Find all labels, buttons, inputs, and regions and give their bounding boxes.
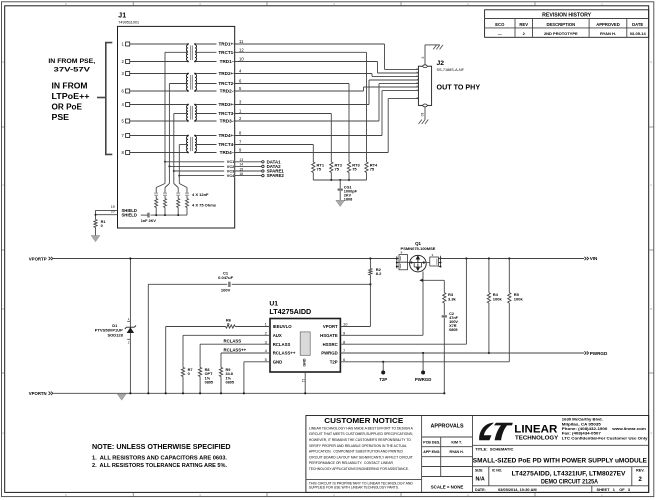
svg-text:APP ENG.: APP ENG. xyxy=(423,450,440,454)
svg-text:RCLASS++: RCLASS++ xyxy=(224,347,247,352)
svg-text:PCB DES.: PCB DES. xyxy=(423,440,440,444)
svg-text:VC1: VC1 xyxy=(227,160,234,164)
svg-text:B: B xyxy=(2,307,4,311)
svg-text:3.3k: 3.3k xyxy=(448,297,457,302)
svg-text:IC NO.: IC NO. xyxy=(492,468,502,472)
svg-text:1nF 2KV: 1nF 2KV xyxy=(141,219,157,223)
svg-text:RCLASS: RCLASS xyxy=(273,342,291,347)
svg-text:10: 10 xyxy=(239,57,244,62)
svg-text:LINEAR: LINEAR xyxy=(514,424,557,436)
svg-text:RCLASS++: RCLASS++ xyxy=(273,351,296,356)
svg-text:10: 10 xyxy=(343,322,348,327)
svg-text:LT4275AIDD, LT4321IUF, LTM8027: LT4275AIDD, LT4321IUF, LTM8027EV xyxy=(512,470,627,477)
svg-text:IEEUVLO: IEEUVLO xyxy=(273,324,293,329)
svg-text:SPARE2: SPARE2 xyxy=(267,173,285,178)
svg-text:GND: GND xyxy=(273,359,283,364)
svg-text:PWRGD: PWRGD xyxy=(590,351,608,356)
svg-text:13: 13 xyxy=(239,158,243,162)
svg-text:100V: 100V xyxy=(221,288,231,293)
svg-text:TRCT1: TRCT1 xyxy=(218,50,233,55)
svg-text:14: 14 xyxy=(239,163,243,167)
svg-text:T2P: T2P xyxy=(330,359,338,364)
svg-text:TRCT3: TRCT3 xyxy=(218,111,233,116)
svg-text:PERFORMANCE OR RELIABILITY. C: PERFORMANCE OR RELIABILITY. CONTACT LINE… xyxy=(309,461,393,465)
svg-text:03/05/2014, 10:30 AM: 03/05/2014, 10:30 AM xyxy=(498,487,537,492)
svg-text:VPORTN: VPORTN xyxy=(29,391,47,397)
svg-text:03-05-14: 03-05-14 xyxy=(630,31,647,36)
svg-text:2ND PROTOTYPE: 2ND PROTOTYPE xyxy=(544,31,578,36)
svg-text:37V-57V: 37V-57V xyxy=(54,67,92,74)
svg-text:B: B xyxy=(650,307,652,311)
svg-text:DATE: DATE xyxy=(632,22,643,27)
svg-text:DATE:: DATE: xyxy=(475,488,486,492)
svg-text:TRCT4: TRCT4 xyxy=(218,142,233,147)
svg-text:SUPPLIED FOR USE WITH LINEAR T: SUPPLIED FOR USE WITH LINEAR TECHNOLOGY … xyxy=(309,486,399,490)
svg-text:TRD4-: TRD4- xyxy=(220,150,234,155)
svg-text:15: 15 xyxy=(239,167,243,171)
svg-text:RCLASS: RCLASS xyxy=(224,339,242,344)
svg-text:PSMN075-100MSE: PSMN075-100MSE xyxy=(401,246,436,251)
svg-text:100k: 100k xyxy=(514,297,524,302)
svg-text:TRD3+: TRD3+ xyxy=(219,102,234,107)
svg-text:TECHNOLOGY: TECHNOLOGY xyxy=(515,436,558,442)
svg-text:OUT TO PHY: OUT TO PHY xyxy=(437,83,481,92)
svg-text:0805: 0805 xyxy=(226,381,234,385)
svg-text:T2P: T2P xyxy=(379,377,387,382)
svg-text:0.047uF: 0.047uF xyxy=(218,275,233,280)
svg-text:TRD1-: TRD1- xyxy=(220,59,234,64)
svg-text:IN FROM: IN FROM xyxy=(52,81,88,90)
svg-text:J2: J2 xyxy=(437,60,445,67)
svg-text:8.2: 8.2 xyxy=(376,271,382,276)
svg-text:11: 11 xyxy=(239,39,244,44)
svg-text:DEMO CIRCUIT 2125A: DEMO CIRCUIT 2125A xyxy=(541,478,598,485)
svg-text:D: D xyxy=(650,60,652,64)
svg-text:RYAN H.: RYAN H. xyxy=(600,31,616,36)
svg-text:LTPoE++: LTPoE++ xyxy=(52,92,90,101)
svg-text:REVISION HISTORY: REVISION HISTORY xyxy=(542,12,592,18)
svg-text:TRD1+: TRD1+ xyxy=(219,42,234,47)
svg-text:HSSRC: HSSRC xyxy=(323,342,338,347)
svg-text:75: 75 xyxy=(317,167,322,172)
svg-text:0805: 0805 xyxy=(449,328,457,332)
svg-text:SHEET 1 OF 3: SHEET 1 OF 3 xyxy=(597,487,631,492)
svg-text:REV.: REV. xyxy=(636,469,645,473)
svg-text:LTC Confidential-For Customer: LTC Confidential-For Customer Use Only xyxy=(562,435,649,440)
svg-text:TITLE: SCHEMATIC: TITLE: SCHEMATIC xyxy=(475,447,513,452)
svg-text:VC2: VC2 xyxy=(227,165,234,169)
svg-text:VIN: VIN xyxy=(590,256,598,261)
svg-text:CUSTOMER NOTICE: CUSTOMER NOTICE xyxy=(324,416,403,425)
svg-text:C: C xyxy=(650,183,652,187)
svg-text:APPROVED: APPROVED xyxy=(596,22,620,27)
svg-text:0: 0 xyxy=(188,372,190,376)
svg-text:19: 19 xyxy=(111,205,115,209)
svg-text:AUX: AUX xyxy=(273,333,282,338)
svg-text:SS-7188S-A-NF: SS-7188S-A-NF xyxy=(437,68,465,72)
svg-text:KIM T.: KIM T. xyxy=(451,440,462,444)
svg-text:SIZE: SIZE xyxy=(475,468,483,472)
svg-text:VC4: VC4 xyxy=(227,174,235,178)
svg-text:10: 10 xyxy=(420,113,424,117)
svg-text:TRCT2: TRCT2 xyxy=(218,81,233,86)
svg-text:A: A xyxy=(2,431,4,435)
svg-text:D: D xyxy=(2,60,4,64)
svg-text:16: 16 xyxy=(239,172,243,176)
svg-text:4 X 75 Ohms: 4 X 75 Ohms xyxy=(192,202,217,207)
svg-text:TRD3-: TRD3- xyxy=(220,119,234,124)
svg-text:VPORT: VPORT xyxy=(323,324,338,329)
svg-text:GND: GND xyxy=(303,358,307,366)
svg-text:RYAN H.: RYAN H. xyxy=(449,450,463,454)
svg-text:75: 75 xyxy=(335,167,340,172)
svg-text:PWRGD: PWRGD xyxy=(415,377,431,382)
svg-text:J1: J1 xyxy=(118,13,126,20)
svg-text:75: 75 xyxy=(370,167,375,172)
svg-text:VC3: VC3 xyxy=(227,169,234,173)
svg-text:PSE: PSE xyxy=(52,113,70,122)
svg-text:LT4275AIDD: LT4275AIDD xyxy=(269,307,311,316)
svg-text:VERIFY PROPER AND RELIABLE OPE: VERIFY PROPER AND RELIABLE OPERATION IN … xyxy=(309,444,407,448)
svg-text:IN FROM PSE,: IN FROM PSE, xyxy=(48,58,95,65)
svg-text:—: — xyxy=(498,31,502,36)
svg-text:TRD4+: TRD4+ xyxy=(219,133,234,138)
svg-text:APPLICATION. COMPONENT SUBSTI: APPLICATION. COMPONENT SUBSTITUTION AND … xyxy=(309,450,403,454)
svg-text:7499511001: 7499511001 xyxy=(118,20,139,24)
svg-text:NOTE: UNLESS OTHERWISE SPECIFI: NOTE: UNLESS OTHERWISE SPECIFIED xyxy=(92,444,231,451)
svg-text:PWRGD: PWRGD xyxy=(321,351,337,356)
svg-text:VPORTP: VPORTP xyxy=(29,256,48,262)
svg-text:0: 0 xyxy=(101,224,103,228)
svg-text:APPROVALS: APPROVALS xyxy=(430,423,464,429)
svg-text:0805: 0805 xyxy=(205,381,213,385)
svg-text:4 X 12nF: 4 X 12nF xyxy=(192,192,209,197)
svg-text:TECHNOLOGY APPLICATIONS ENGINE: TECHNOLOGY APPLICATIONS ENGINEERING FOR … xyxy=(309,467,409,471)
svg-text:1808: 1808 xyxy=(344,198,352,202)
svg-text:N/A: N/A xyxy=(476,476,485,482)
svg-text:TRD2-: TRD2- xyxy=(220,89,234,94)
svg-text:TRD2+: TRD2+ xyxy=(219,71,234,76)
svg-text:SMALL-SIZED PoE PD WITH POWER: SMALL-SIZED PoE PD WITH POWER SUPPLY uMO… xyxy=(473,458,648,465)
svg-text:100k: 100k xyxy=(493,297,503,302)
svg-text:2. ALL RESISTORS TOLERANCE RA: 2. ALL RESISTORS TOLERANCE RATING ARE 5%… xyxy=(92,463,227,469)
svg-text:ECO: ECO xyxy=(495,22,505,27)
svg-text:CIRCUIT THAT MEETS CUSTOMER-SU: CIRCUIT THAT MEETS CUSTOMER-SUPPLIED SPE… xyxy=(309,432,413,436)
svg-text:11: 11 xyxy=(301,379,305,383)
svg-text:SHIELD: SHIELD xyxy=(122,213,137,218)
svg-text:HSGATE: HSGATE xyxy=(320,333,338,338)
svg-text:12: 12 xyxy=(239,48,244,53)
svg-text:OR PoE: OR PoE xyxy=(52,102,83,111)
svg-text:9: 9 xyxy=(420,57,424,59)
svg-text:75: 75 xyxy=(352,167,357,172)
svg-text:1. ALL RESISTORS AND CAPACITO: 1. ALL RESISTORS AND CAPACITORS ARE 0603… xyxy=(92,455,227,461)
svg-text:SCALE = NONE: SCALE = NONE xyxy=(431,485,464,490)
svg-text:C: C xyxy=(2,183,4,187)
svg-text:DESCRIPTION: DESCRIPTION xyxy=(546,22,575,27)
svg-text:SOD128: SOD128 xyxy=(107,333,123,338)
svg-text:HOWEVER, IT REMAINS THE CUSTOM: HOWEVER, IT REMAINS THE CUSTOMER'S RESPO… xyxy=(309,438,411,442)
svg-text:A: A xyxy=(650,431,652,435)
svg-text:LINEAR TECHNOLOGY HAS MADE A B: LINEAR TECHNOLOGY HAS MADE A BEST EFFORT… xyxy=(309,426,413,430)
svg-text:CIRCUIT BOARD LAYOUT MAY SIGNI: CIRCUIT BOARD LAYOUT MAY SIGNIFICANTLY A… xyxy=(309,455,414,459)
svg-text:REV: REV xyxy=(519,22,528,27)
